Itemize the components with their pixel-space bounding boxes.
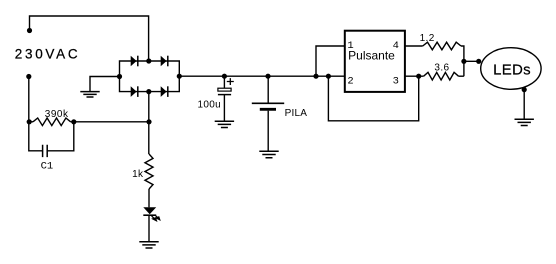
svg-text:LEDs: LEDs [493,62,531,79]
svg-text:Pulsante: Pulsante [348,49,395,63]
svg-text:3.6: 3.6 [434,63,449,74]
svg-text:1.2: 1.2 [420,33,435,44]
svg-text:1: 1 [347,40,353,52]
svg-text:2: 2 [347,75,353,87]
svg-text:C1: C1 [41,161,54,173]
svg-text:100u: 100u [198,100,221,111]
svg-text:PILA: PILA [285,108,308,119]
svg-text:1k: 1k [132,169,144,180]
svg-text:390k: 390k [45,109,69,120]
svg-text:230VAC: 230VAC [15,46,80,61]
svg-text:3: 3 [393,75,399,87]
svg-text:4: 4 [393,40,399,52]
